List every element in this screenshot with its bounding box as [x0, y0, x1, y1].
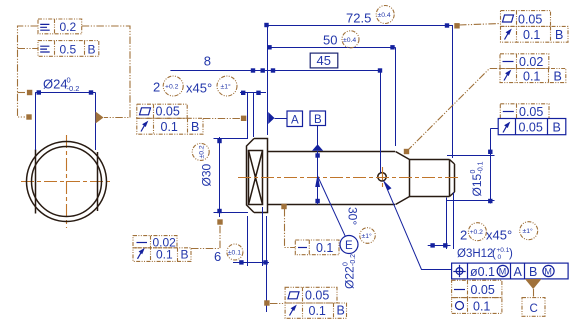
extension line cone start [395, 47, 397, 146]
svg-text:0.1: 0.1 [161, 120, 178, 134]
datum A box [287, 111, 303, 127]
svg-text:B: B [553, 121, 561, 135]
leader FCF3 to diameter15 dimension [490, 128, 498, 130]
leader bottom-center FCF to head extension [270, 303, 285, 305]
cross hole circle [378, 173, 386, 181]
dimension diameter15 line [490, 129, 492, 204]
head flat rectangle [249, 151, 263, 205]
M circle modifier 1 [497, 265, 508, 276]
extension lines 6 [247, 216, 249, 266]
svg-text:0: 0 [343, 262, 350, 266]
small cylinder [410, 160, 455, 197]
dimension diameter22 line [317, 151, 319, 205]
svg-text:B: B [191, 120, 199, 134]
end view flat left [35, 150, 37, 214]
M circle modifier 2 [543, 265, 554, 276]
extension lines diameter30 [214, 138, 249, 140]
svg-text:0.1: 0.1 [316, 241, 333, 255]
head outline [247, 139, 268, 213]
svg-text:B: B [555, 28, 563, 42]
leader loop left of symmetry FCFs [18, 26, 39, 117]
extension lines diameter15 [447, 155, 495, 157]
svg-text:±0.2: ±0.2 [199, 145, 206, 158]
svg-text:+0.2: +0.2 [165, 84, 179, 91]
svg-text:±0.1: ±0.1 [228, 250, 241, 257]
extension line right end face [452, 25, 454, 158]
svg-text:±0.4: ±0.4 [378, 12, 391, 19]
svg-text:0.1: 0.1 [309, 304, 326, 318]
text diameter15 rotated [470, 161, 485, 196]
svg-text:2: 2 [153, 80, 160, 95]
svg-text:0.02: 0.02 [519, 55, 543, 69]
svg-text:0.1: 0.1 [523, 69, 540, 83]
leader left-middle FCF to chamfer extension [203, 118, 240, 120]
dimension 72.5 line [268, 25, 453, 27]
angular 30 leader to E [318, 176, 346, 236]
svg-text:-0.2: -0.2 [67, 84, 80, 93]
svg-text:x45°: x45° [486, 228, 512, 243]
svg-text:): ) [509, 248, 513, 260]
datum E balloon [340, 236, 358, 254]
extension lines diameter24 [35, 93, 37, 151]
dimension 8 and 45 shared line [170, 70, 380, 72]
svg-text:B: B [337, 304, 345, 318]
svg-text:-0.2: -0.2 [350, 254, 357, 266]
svg-text:0.1: 0.1 [156, 247, 173, 261]
svg-text:0.5: 0.5 [60, 42, 77, 56]
cone edges [396, 152, 410, 205]
text diameter22 rotated [343, 254, 358, 289]
svg-text:M: M [499, 267, 507, 277]
leader FCF2 to cone surface [407, 69, 501, 152]
svg-text:2: 2 [460, 228, 467, 243]
svg-text:Ø15: Ø15 [470, 173, 484, 196]
FCF top-right 2 straightness over runout [500, 54, 566, 84]
svg-text:Ø22: Ø22 [343, 266, 357, 289]
position FCF frame [452, 263, 568, 279]
svg-text:±1°: ±1° [221, 83, 232, 91]
datum B box [310, 111, 326, 126]
FCF top-left symmetry 0.5 B [38, 41, 99, 57]
svg-text:0.05: 0.05 [518, 12, 542, 26]
svg-text:Ø30: Ø30 [200, 163, 214, 186]
svg-text:Ø24: Ø24 [43, 77, 68, 92]
leader left-lower FCF to diameter30 dimension [191, 224, 220, 249]
svg-text:M: M [544, 267, 552, 277]
FCF left-lower straightness over runout [133, 235, 191, 261]
svg-text:+0.2: +0.2 [470, 229, 484, 236]
circularity row [452, 298, 502, 314]
svg-text:0: 0 [498, 254, 502, 261]
FCF top-right 1 flatness over runout [501, 11, 569, 43]
leader middle FCF to body bottom edge [285, 209, 296, 248]
end view flat right [97, 152, 99, 211]
svg-text:30°: 30° [346, 207, 360, 225]
svg-text:+0.1: +0.1 [497, 247, 510, 254]
body top edge [267, 151, 395, 153]
svg-text:0.05: 0.05 [519, 121, 543, 135]
extension line head right face [267, 25, 269, 135]
FCF bottom-center flatness over runout [285, 287, 346, 318]
head flat cross X [249, 151, 263, 205]
centerline end view horizontal [21, 181, 112, 183]
svg-text:0: 0 [470, 170, 477, 174]
extension line head right face bottom [266, 216, 268, 312]
FCF top-left symmetry 0.2 [38, 19, 82, 34]
svg-text:A: A [514, 265, 523, 279]
FCF middle straightness 0.1 [295, 240, 339, 255]
svg-text:B: B [554, 69, 562, 83]
svg-text:B: B [529, 265, 537, 279]
svg-text:B: B [181, 247, 189, 261]
dimension diameter24 line [35, 92, 95, 94]
end view chamfer circle [32, 147, 102, 217]
chamfer right dimension [428, 245, 451, 247]
datum C box [522, 298, 545, 317]
body bottom edge [267, 204, 395, 206]
FCF left-middle flatness over runout [137, 104, 203, 134]
svg-text:0.05: 0.05 [305, 289, 329, 303]
text 30deg rotated [346, 207, 360, 225]
svg-text:Ø3H12: Ø3H12 [457, 248, 493, 260]
chamfer left dimension [240, 92, 266, 94]
svg-text:B: B [314, 114, 322, 126]
extension line hole axis [380, 71, 382, 173]
dimension 50 line [268, 47, 396, 49]
svg-text:0.05: 0.05 [156, 105, 180, 119]
svg-text:8: 8 [204, 54, 211, 69]
svg-text:ø0.1: ø0.1 [470, 265, 495, 279]
svg-text:±1°: ±1° [523, 227, 534, 235]
svg-text:0.1: 0.1 [473, 300, 490, 314]
svg-text:C: C [530, 303, 538, 315]
svg-text:(: ( [492, 248, 496, 260]
svg-text:E: E [345, 240, 353, 252]
svg-text:0.2: 0.2 [60, 20, 77, 34]
svg-text:0.05: 0.05 [519, 105, 543, 119]
datum B triangle [317, 126, 319, 146]
datum A triangle [268, 112, 274, 124]
svg-text:0.05: 0.05 [471, 283, 495, 297]
leader loop right of symmetry FCFs [82, 26, 130, 118]
basic dimension box 45 [310, 53, 338, 68]
angular 30 arrow [315, 174, 320, 187]
hole leader to position FCF [384, 181, 452, 270]
straightness row under position FCF [452, 280, 502, 297]
svg-text:45: 45 [317, 53, 331, 68]
FCF top-right 3 straightness over runout [498, 104, 566, 135]
balloon plus-minus 1deg [360, 228, 376, 244]
hole leader arrow [384, 181, 392, 191]
svg-text:±1°: ±1° [362, 232, 373, 240]
svg-text:B: B [88, 42, 96, 56]
svg-text:-0.1: -0.1 [478, 161, 485, 173]
centerline end view vertical [66, 135, 68, 228]
centerline side view horizontal [238, 177, 461, 179]
centerline hole vertical [382, 167, 384, 189]
balloon 50 tolerance [342, 31, 359, 48]
datum C triangle [525, 279, 542, 289]
position symbol [453, 265, 465, 277]
svg-text:A: A [291, 115, 299, 127]
svg-text:72.5: 72.5 [346, 11, 371, 26]
balloon 72.5 tolerance [376, 6, 394, 24]
leader FCF1 to 72.5 extension [459, 24, 501, 26]
dimension 6 line [233, 262, 269, 264]
svg-text:±0.4: ±0.4 [343, 37, 356, 44]
dimension diameter30 line [219, 137, 221, 217]
end view outer circle [27, 142, 107, 222]
svg-text:50: 50 [323, 33, 337, 48]
svg-text:0.1: 0.1 [523, 28, 540, 42]
svg-text:x45°: x45° [186, 81, 212, 96]
text diameter30 rotated [200, 163, 214, 186]
svg-text:6: 6 [214, 249, 221, 264]
